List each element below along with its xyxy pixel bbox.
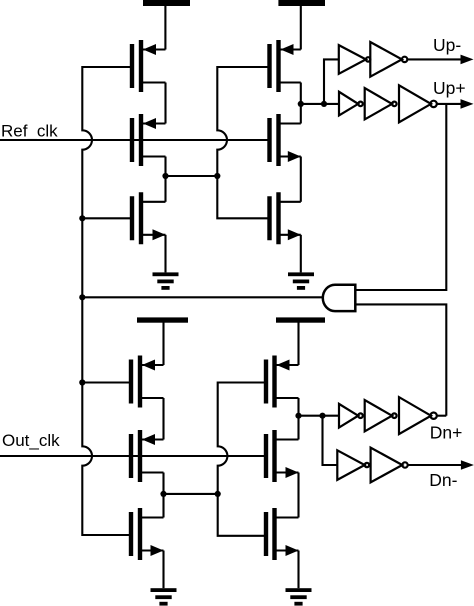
transistor M6 right-bottom NMOS bbox=[270, 192, 301, 244]
wire U2 to Up- arrow bbox=[407, 58, 462, 60]
node D wire to inverters bbox=[299, 415, 340, 417]
arrow Up- output bbox=[461, 55, 474, 65]
inverter U5 (Up+ third) bbox=[399, 85, 437, 122]
transistor M9 bottom-left-bottom NMOS bbox=[131, 508, 164, 560]
arrow Dn- output bbox=[461, 460, 474, 470]
inverter U11 (Dn- second) bbox=[371, 448, 408, 483]
svg-text:Out_clk: Out_clk bbox=[2, 431, 60, 450]
wire node A to right rail bbox=[166, 175, 218, 177]
inverter U2 (Up- second) bbox=[370, 42, 407, 77]
transistor M1 top-left PMOS bbox=[132, 40, 166, 92]
wire M6 source to ground bbox=[300, 235, 302, 273]
svg-text:Up+: Up+ bbox=[433, 78, 466, 98]
right rail bottom (node C to M10/M12 gates) with hop bbox=[218, 383, 264, 536]
node B branch dot bbox=[321, 101, 327, 107]
transistor M2 left-mid PMOS bbox=[132, 114, 166, 166]
wire branch up to Up- row bbox=[324, 59, 339, 104]
VDD bar bottom-left bbox=[137, 317, 188, 365]
node C dot on right rail bbox=[215, 491, 221, 497]
transistor M5 right-mid NMOS bbox=[270, 114, 301, 166]
wire U9 to AND input corner bbox=[437, 415, 447, 417]
wire M10 drain to node D bbox=[297, 398, 299, 440]
transistor M11 bottom-right-mid NMOS bbox=[266, 430, 299, 482]
wire M7 drain to M8 source bbox=[162, 398, 164, 440]
left reset rail wire with hops bbox=[82, 67, 130, 535]
inverter U4 (Up+ second) bbox=[365, 88, 397, 119]
dot reset rail at reset wire bbox=[79, 294, 85, 300]
wire M3 source to ground bbox=[164, 235, 166, 273]
transistor M3 left-bottom NMOS bbox=[132, 192, 166, 244]
dot reset rail at M7 gate bbox=[79, 379, 85, 385]
wire AND input 2 from Dn+ bbox=[356, 304, 447, 415]
wire M4 drain to node B bbox=[300, 83, 302, 124]
transistor M4 right-top PMOS bbox=[270, 40, 301, 92]
svg-text:Ref_clk: Ref_clk bbox=[1, 122, 58, 141]
transistor M10 bottom-right-top PMOS bbox=[266, 356, 299, 408]
wire M9 source to ground bbox=[162, 551, 164, 589]
inverter U9 (Dn+ third) bbox=[399, 397, 437, 434]
node B dot bbox=[298, 101, 304, 107]
right rail top (node A to M4/M6 gates) with hop bbox=[217, 67, 267, 218]
node A dot bbox=[162, 173, 168, 179]
VDD bar top-left bbox=[143, 0, 190, 50]
transistor M12 bottom-right-bottom NMOS bbox=[266, 508, 299, 560]
ground bottom-left bbox=[151, 588, 177, 605]
wire rail to M3 gate bbox=[82, 217, 130, 219]
wire M11 source to M12 drain bbox=[297, 473, 299, 518]
transistor M8 bottom-left-mid PMOS bbox=[131, 430, 164, 482]
AND gate U6 (mirrored) bbox=[323, 285, 356, 311]
wire node C to right rail bbox=[164, 493, 218, 495]
node C dot bbox=[160, 491, 166, 497]
node D dot bbox=[295, 413, 301, 419]
dot reset rail at M3 gate bbox=[79, 215, 85, 221]
VDD bar bottom-right bbox=[276, 317, 325, 365]
wire rail to M7 gate bbox=[82, 381, 129, 383]
inverter U3 (Up+ first) bbox=[339, 92, 363, 116]
wire Up+ down to AND input 1 bbox=[356, 104, 447, 290]
wire M8 drain down to node C bbox=[162, 473, 164, 518]
wire M2 drain down to node A bbox=[164, 157, 166, 202]
Out_clk wire bbox=[0, 455, 264, 457]
transistor M7 bottom-left-top PMOS bbox=[131, 356, 164, 408]
wire U5 to Up+ arrow bbox=[437, 103, 462, 105]
inverter U7 (Dn+ first) bbox=[339, 404, 363, 428]
node B wire to inverters bbox=[301, 103, 339, 105]
inverter U10 (Dn- first) bbox=[337, 450, 369, 480]
inverter U8 (Dn+ second) bbox=[365, 400, 397, 431]
wire branch down to Dn- row bbox=[323, 416, 338, 465]
arrow Up+ output bbox=[461, 99, 474, 109]
wire U11 to Dn- arrow bbox=[408, 464, 462, 466]
VDD bar top-right bbox=[278, 0, 325, 50]
ground bottom-right bbox=[286, 588, 312, 605]
node A dot on right rail bbox=[214, 173, 220, 179]
svg-text:Dn-: Dn- bbox=[429, 470, 457, 490]
reset wire AND output to left rail bbox=[82, 296, 322, 298]
ground top-right bbox=[288, 272, 314, 289]
wire M1 drain to M2 source bbox=[164, 83, 166, 124]
wire M12 source to ground bbox=[297, 551, 299, 589]
ground top-left bbox=[153, 272, 179, 289]
node D branch dot bbox=[319, 413, 325, 419]
svg-text:Up-: Up- bbox=[433, 35, 461, 55]
wire M5 source to M6 drain bbox=[300, 157, 302, 202]
svg-text:Dn+: Dn+ bbox=[430, 422, 463, 442]
Ref_clk wire bbox=[0, 139, 268, 141]
inverter U1 (Up- first) bbox=[339, 45, 371, 74]
